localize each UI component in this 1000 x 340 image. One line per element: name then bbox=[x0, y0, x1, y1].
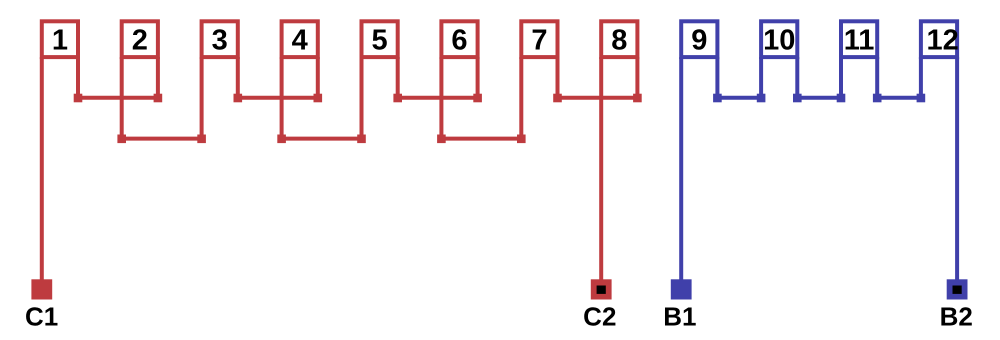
wire: coil 9 finish lead down to jumper bbox=[715, 57, 719, 98]
junction pad at coil 5 finish bbox=[393, 94, 402, 103]
wire: jumper coil 11 finish to coil 12 start bbox=[877, 96, 921, 100]
svg-text:1: 1 bbox=[52, 25, 68, 57]
wire: coil 7 finish lead down to upper jumper bbox=[556, 57, 560, 98]
wire: coil 5 start lead down to lower jumper bbox=[360, 57, 364, 139]
svg-text:2: 2 bbox=[132, 25, 148, 57]
wire: jumper coil 9 finish to coil 10 start bbox=[717, 96, 761, 100]
svg-text:B1: B1 bbox=[663, 302, 696, 332]
coil 9 (pole coil box) bbox=[681, 21, 717, 57]
junction pad at coil 1 finish bbox=[74, 94, 83, 103]
coil 5 (pole coil box) bbox=[362, 21, 398, 57]
junction pad at coil 11 start bbox=[837, 94, 846, 103]
svg-text:7: 7 bbox=[531, 25, 547, 57]
wire: coil 10 finish lead down to jumper bbox=[795, 57, 799, 98]
junction pad at coil 6 start bbox=[437, 135, 446, 144]
terminal C2 (run winding lead, marked) bbox=[591, 279, 612, 299]
coil 7 (pole coil box) bbox=[521, 21, 557, 57]
svg-text:3: 3 bbox=[212, 25, 228, 57]
wire: jumper coil 3 finish to coil 4 finish bbox=[238, 96, 318, 100]
junction pad at coil 2 start bbox=[117, 135, 126, 144]
junction pad at coil 7 finish bbox=[553, 94, 562, 103]
wire: coil 6 finish lead down to upper jumper bbox=[476, 57, 480, 98]
wire: coil 5 finish lead down to upper jumper bbox=[396, 57, 400, 98]
junction pad at coil 11 finish bbox=[873, 94, 882, 103]
junction pad at coil 4 start bbox=[277, 135, 286, 144]
wire: jumper coil 10 finish to coil 11 start bbox=[797, 96, 841, 100]
terminal B1 (start winding lead) bbox=[671, 279, 692, 299]
coil 8 (pole coil box) bbox=[601, 21, 637, 57]
svg-text:12: 12 bbox=[926, 25, 958, 57]
wire: jumper coil 7 finish to coil 8 finish bbox=[558, 96, 638, 100]
junction pad at coil 2 finish bbox=[154, 94, 163, 103]
coil 10 (pole coil box) bbox=[761, 21, 797, 57]
junction pad at coil 9 finish bbox=[713, 94, 722, 103]
junction pad at coil 7 start bbox=[517, 135, 526, 144]
wire: jumper coil 6 start to coil 7 start bbox=[441, 137, 521, 141]
svg-text:C2: C2 bbox=[583, 302, 616, 332]
svg-text:10: 10 bbox=[763, 25, 795, 57]
wire: coil 8 finish lead down to upper jumper bbox=[635, 57, 639, 98]
wire: coil 11 finish lead down to jumper bbox=[875, 57, 879, 98]
wire: coil 12 start lead down to jumper bbox=[919, 57, 923, 98]
junction pad at coil 4 finish bbox=[314, 94, 323, 103]
coil 2 (pole coil box) bbox=[122, 21, 158, 57]
svg-text:11: 11 bbox=[844, 25, 875, 57]
coil 1 (pole coil box) bbox=[42, 21, 78, 57]
wire: coil 8 start lead down to terminal C2 bbox=[599, 57, 603, 281]
svg-text:9: 9 bbox=[691, 25, 707, 57]
svg-text:6: 6 bbox=[451, 25, 467, 57]
wire: coil 11 start lead down to jumper bbox=[839, 57, 843, 98]
coil 6 (pole coil box) bbox=[441, 21, 477, 57]
wire: coil 1 finish lead down to upper jumper bbox=[76, 57, 80, 98]
coil 12 (pole coil box) bbox=[921, 21, 959, 57]
coil 3 (pole coil box) bbox=[202, 21, 238, 57]
wire: coil 2 finish lead down to upper jumper bbox=[156, 57, 160, 98]
wire: coil 4 finish lead down to upper jumper bbox=[316, 57, 320, 98]
wire: coil 3 finish lead down to upper jumper bbox=[236, 57, 240, 98]
junction pad at coil 8 finish bbox=[633, 94, 642, 103]
junction pad at coil 3 start bbox=[197, 135, 206, 144]
svg-text:4: 4 bbox=[292, 25, 308, 57]
wire: coil 2 start lead down to lower jumper bbox=[120, 57, 124, 139]
wire: coil 7 start lead down to lower jumper bbox=[519, 57, 523, 139]
junction pad at coil 10 finish bbox=[793, 94, 802, 103]
wire: coil 6 start lead down to lower jumper bbox=[439, 57, 443, 139]
wire: jumper coil 4 start to coil 5 start bbox=[282, 137, 362, 141]
junction pad at coil 5 start bbox=[357, 135, 366, 144]
svg-text:C1: C1 bbox=[25, 302, 58, 332]
junction pad at coil 12 start bbox=[917, 94, 926, 103]
terminal B2 (start winding lead, marked) bbox=[947, 279, 968, 299]
coil 4 (pole coil box) bbox=[282, 21, 318, 57]
wire: coil 3 start lead down to lower jumper bbox=[200, 57, 204, 139]
wire: coil 9 start lead down to terminal B1 bbox=[679, 57, 683, 281]
svg-text:8: 8 bbox=[611, 25, 627, 57]
wire: jumper coil 1 finish to coil 2 finish bbox=[78, 96, 158, 100]
wire: jumper coil 5 finish to coil 6 finish bbox=[398, 96, 478, 100]
coil 11 (pole coil box) bbox=[841, 21, 877, 57]
wire: coil 1 start lead down to terminal C1 bbox=[40, 57, 44, 281]
junction pad at coil 3 finish bbox=[234, 94, 243, 103]
svg-text:5: 5 bbox=[372, 25, 388, 57]
wire: jumper coil 2 start to coil 3 start bbox=[122, 137, 202, 141]
wire: coil 10 start lead down to jumper bbox=[759, 57, 763, 98]
junction pad at coil 10 start bbox=[757, 94, 766, 103]
wire: coil 4 start lead down to lower jumper bbox=[280, 57, 284, 139]
svg-text:B2: B2 bbox=[940, 302, 973, 332]
terminal C1 (run winding lead) bbox=[31, 279, 52, 299]
junction pad at coil 6 finish bbox=[473, 94, 482, 103]
wire: coil 12 finish lead down to terminal B2 bbox=[955, 57, 959, 281]
